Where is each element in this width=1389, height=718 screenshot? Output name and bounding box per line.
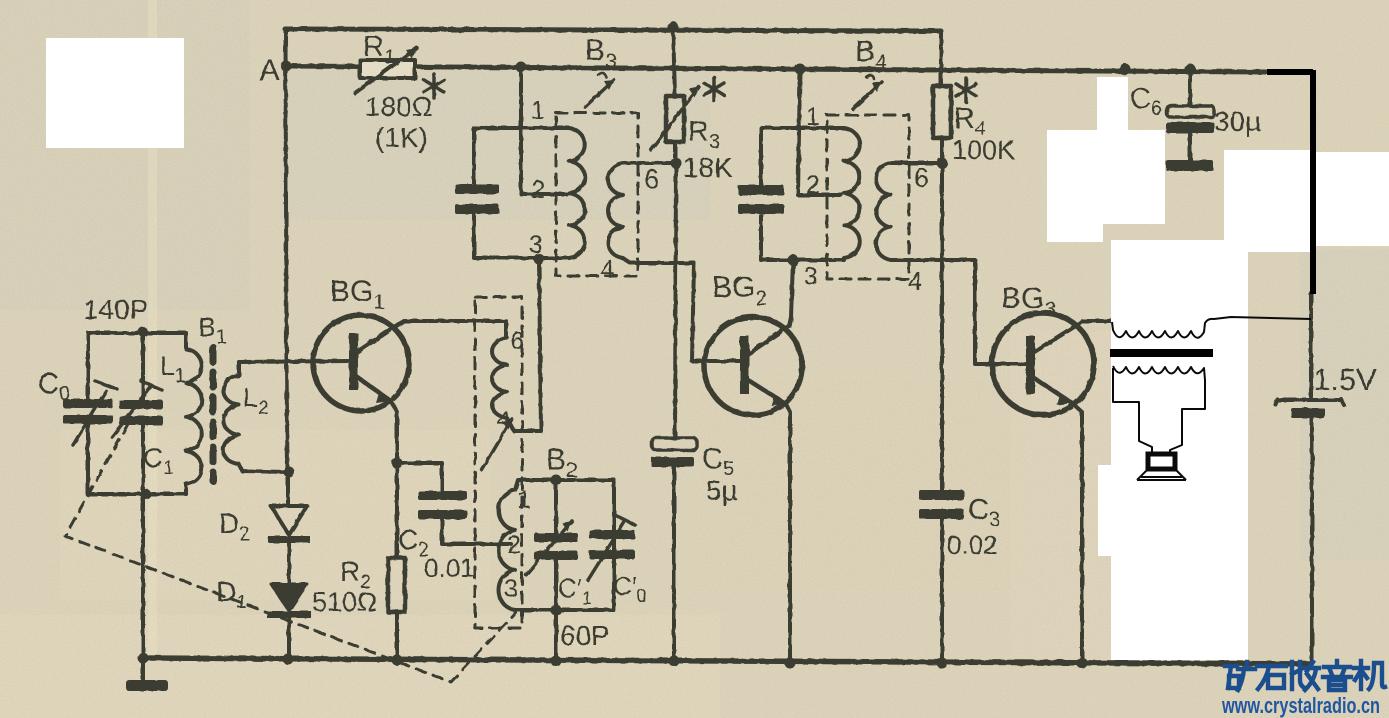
svg-text:510Ω: 510Ω (312, 587, 377, 617)
white-out patch under C6 label (1103, 130, 1165, 224)
wire top supply rail (285, 29, 941, 31)
wire B4 pin4 to BG3 base (975, 263, 1026, 364)
node 140P bottom (141, 489, 151, 499)
B4 primary winding pins 1-2-3 (804, 103, 860, 291)
wire B4 pin6 to R4 node (891, 161, 942, 165)
resistor R3 (651, 27, 733, 183)
node R3 bottom (671, 158, 682, 169)
wire B2 tap3 to padder box bottom (515, 480, 614, 610)
value label 60P (560, 620, 610, 651)
wire R3 node down to C5 (675, 163, 676, 438)
B4 secondary winding pins 6-4 (876, 163, 975, 296)
node rail below BG3 (1077, 658, 1088, 669)
IF transformer B4 dashed box (827, 35, 909, 279)
wire BG1 collector to B2 pin6 (399, 321, 506, 338)
asterisk mark for R1 (424, 74, 444, 98)
node B3 tap3 (534, 254, 545, 265)
B3 resonant capacitor loop (455, 128, 569, 258)
wire BG3 collector to output transformer (1077, 321, 1112, 325)
wire B3 pin6 to R3 node (623, 161, 676, 165)
transistor BG1 (313, 275, 409, 411)
B2 core adjust arrow (482, 419, 512, 470)
inductor L1 (160, 333, 202, 494)
capacitor C6 electrolytic (1130, 69, 1261, 171)
B4 core adjust arrow (853, 75, 882, 109)
speaker (1137, 454, 1186, 480)
variable capacitor C1' (526, 521, 592, 608)
svg-text:0.01: 0.01 (424, 553, 475, 583)
battery 1.5V (1275, 293, 1377, 662)
svg-text:30µ: 30µ (1214, 106, 1261, 137)
B3 secondary winding pins 6-4 (600, 163, 694, 284)
node rail below C5 (669, 656, 680, 667)
wire rail to B4 tap2 (798, 69, 841, 195)
node rail below R2 (392, 655, 403, 666)
value label 180ohm (1K) (365, 91, 433, 153)
wire rail to B3 tap2 (521, 67, 566, 194)
svg-text:18K: 18K (683, 152, 733, 183)
wire BG3 emitter down to rail (1072, 403, 1082, 663)
svg-text:6: 6 (510, 327, 524, 355)
white-out patch notch left (1098, 465, 1114, 556)
node B3 tap2 feed on rail (516, 62, 527, 73)
wire R4 node down to C3 (940, 163, 944, 490)
svg-text:A: A (259, 52, 280, 87)
node padder bottom (551, 605, 562, 616)
capacitor C2 (397, 463, 511, 583)
node rail below padder (551, 656, 562, 667)
svg-text:2: 2 (531, 176, 545, 204)
node C6 feed (1185, 64, 1196, 75)
svg-text:(1K): (1K) (375, 122, 428, 153)
diode D1 (216, 576, 311, 659)
wire second rail A to right (286, 66, 1267, 72)
capacitor C3 (919, 490, 1000, 663)
inductor L2 (223, 362, 289, 472)
svg-text:6: 6 (644, 164, 659, 194)
IF transformer B3 dashed box (556, 34, 638, 276)
node 140P top (138, 327, 148, 337)
node A (259, 52, 292, 87)
svg-text:4: 4 (600, 254, 614, 284)
svg-text:140P: 140P (83, 294, 148, 325)
svg-text:180Ω: 180Ω (365, 91, 433, 122)
white-out patch top right corner (1316, 152, 1389, 246)
watermark crystalradio (1221, 661, 1385, 718)
node rail below D1 (283, 654, 294, 665)
diode D2 (219, 472, 310, 584)
node top rail R3 column (668, 22, 679, 33)
svg-text:1: 1 (531, 97, 545, 125)
node rail below BG2 (785, 658, 796, 669)
transistor BG3 (992, 282, 1094, 415)
tuning capacitor frame 140P (83, 294, 186, 494)
node emitter C2 branch (392, 458, 403, 469)
svg-text:100K: 100K (952, 135, 1015, 165)
svg-text:1: 1 (517, 486, 531, 514)
svg-text:6: 6 (914, 163, 929, 193)
transistor BG2 (704, 271, 802, 415)
asterisk mark for R4 (956, 78, 976, 102)
wire digital correction to battery plus (1267, 70, 1313, 294)
B3 core adjust arrow (585, 73, 614, 107)
wire B2 tap1 to padder box top (515, 480, 614, 490)
white-out patch left of C6 label (1097, 77, 1128, 131)
B2 feedback winding pins 6-4 (492, 260, 541, 434)
variable capacitor C0 (38, 368, 117, 445)
variable capacitor C0' (588, 515, 647, 606)
svg-text:2: 2 (806, 171, 820, 199)
resistor R1 (355, 31, 417, 93)
node C6 left (1120, 64, 1131, 75)
wire BG2 emitter down to rail (786, 404, 790, 663)
white-out patch top left (46, 38, 184, 148)
svg-text:3: 3 (504, 575, 518, 603)
wire left column from top corner down to diode chain (286, 29, 288, 472)
svg-text:2: 2 (507, 531, 521, 559)
wire bottom ground rail (143, 658, 1311, 664)
wire BG2 collector up to B4 (789, 260, 793, 326)
svg-text:4: 4 (908, 266, 922, 296)
svg-text:0.02: 0.02 (947, 530, 998, 560)
variable capacitor C1 (112, 381, 174, 479)
node rail at ground (138, 653, 149, 664)
node B4 tap2 feed on rail (795, 64, 806, 75)
capacitor C5 electrolytic (651, 438, 738, 661)
svg-text:60P: 60P (560, 620, 610, 651)
transformer core B1 (198, 312, 227, 481)
node B4 tap3 (788, 255, 799, 266)
B2 tank winding pins 1-2-3 (499, 486, 531, 610)
svg-text:www.crystalradio.cn: www.crystalradio.cn (1221, 693, 1380, 718)
resistor R4 (933, 31, 1015, 165)
svg-text:3: 3 (804, 263, 818, 291)
resistor R2 (312, 556, 405, 659)
wire BG1 emitter column (391, 401, 397, 558)
svg-text:5µ: 5µ (706, 475, 738, 506)
white-out patch speaker column (1111, 240, 1248, 660)
wire padder center column to rail (554, 480, 558, 661)
oscillator coil B2 dashed box (475, 297, 578, 628)
output transformer hand-drawn (1112, 317, 1311, 454)
node padder top (551, 475, 562, 486)
svg-text:1.5V: 1.5V (1313, 362, 1377, 397)
node R4 bottom (937, 158, 948, 169)
white-out patch below B4 right (1047, 130, 1103, 242)
dashed gang coupling line (65, 424, 516, 682)
transformer core bar (1110, 349, 1213, 357)
asterisk mark for R3 (704, 77, 724, 101)
B3 primary winding pins 1-2-3 (529, 97, 585, 259)
wire center column of tuning gang (141, 332, 145, 658)
ground symbol (126, 659, 168, 691)
node L2 bottom junction (284, 467, 295, 478)
white-out patch right of 30u (1224, 150, 1312, 252)
wire L2 top to BG1 base (239, 361, 348, 362)
wire B3 pin4 down to BG2 base (692, 263, 740, 361)
node rail below C3 (937, 658, 948, 669)
B4 resonant capacitor loop (738, 128, 844, 260)
